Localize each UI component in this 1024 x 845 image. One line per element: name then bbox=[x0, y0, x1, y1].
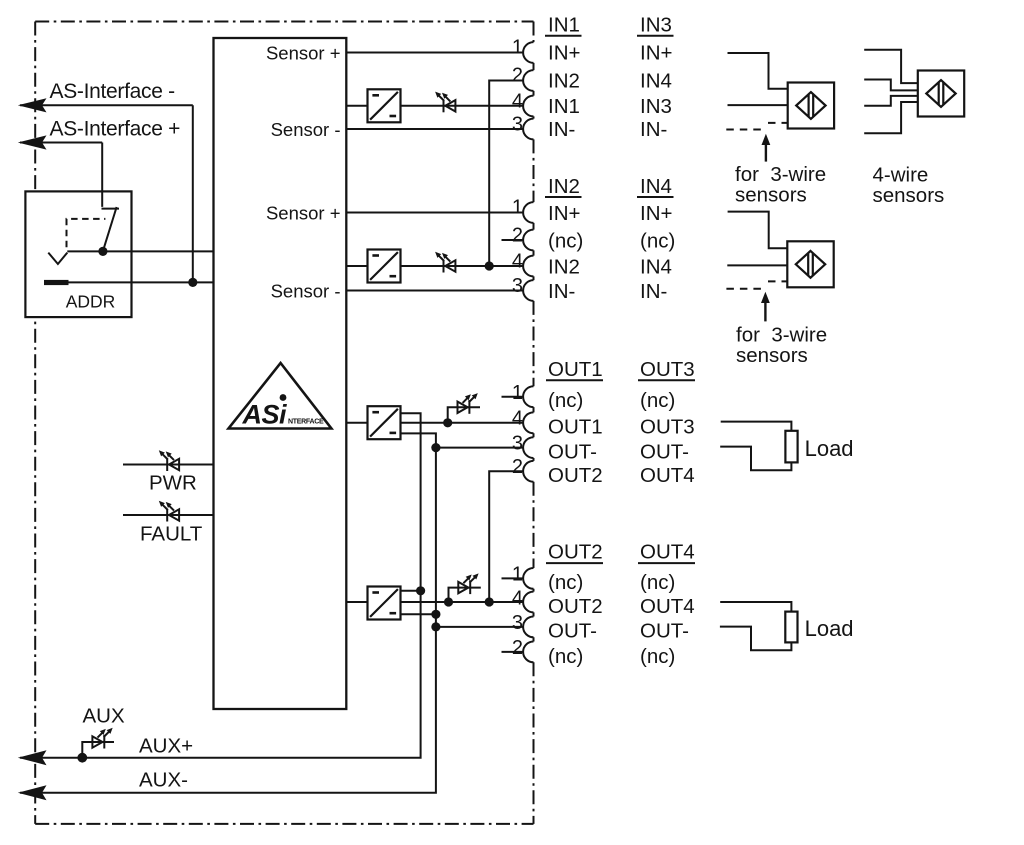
pin labels connector IN1 column bbox=[548, 42, 580, 142]
ADDR reference bar terminal bbox=[44, 280, 69, 285]
pin numbers connector OUT1 bbox=[512, 382, 523, 478]
junction switch output node bbox=[98, 247, 107, 256]
pin labels connector IN2 column bbox=[548, 202, 583, 303]
wire OUT- ch1 to pin3 bbox=[436, 447, 523, 449]
wire Sensor- ch1 to pin3 bbox=[346, 128, 523, 130]
wire 3-wire sensor 2 blue (optional, dashed) bbox=[726, 288, 766, 290]
wire Load 1 top bbox=[721, 422, 792, 431]
LED OUT1 bbox=[458, 393, 478, 414]
LED OUT2 bbox=[458, 573, 478, 594]
wire 3-wire sensor 2 brown (+) bbox=[728, 212, 788, 249]
converter U2 (IN1 isolation) bbox=[368, 89, 401, 122]
svg-text:Load: Load bbox=[805, 616, 854, 641]
wire AS-Interface + bbox=[20, 142, 102, 144]
svg-text:(nc): (nc) bbox=[548, 571, 583, 594]
pin labels IN3 column bbox=[640, 42, 672, 142]
svg-text:AUX: AUX bbox=[83, 705, 125, 728]
svg-text:ADDR: ADDR bbox=[66, 292, 116, 312]
wire nc stub pin1 OUT2 connector bbox=[502, 577, 524, 579]
wire converter U3 input bbox=[346, 265, 367, 267]
junction OUT2 cross-connect node bbox=[485, 597, 494, 606]
dashed mechanical linkage bbox=[67, 219, 106, 247]
LED FAULT bbox=[159, 501, 179, 522]
svg-text:2: 2 bbox=[512, 225, 523, 247]
LED PWR bbox=[159, 450, 179, 471]
svg-text:OUT-: OUT- bbox=[640, 441, 689, 464]
svg-text:2: 2 bbox=[512, 637, 523, 659]
arrow AS-Interface - bbox=[18, 98, 47, 112]
wire OUT2 LED stub bbox=[449, 588, 481, 602]
svg-text:IN-: IN- bbox=[640, 118, 667, 141]
junction OUT- ch2 node bbox=[431, 622, 440, 631]
wire AUX LED stub bbox=[82, 742, 114, 758]
arrow AS-Interface + bbox=[18, 135, 47, 149]
wire Sensor+ ch2 to pin1 bbox=[346, 212, 523, 214]
svg-text:OUT4: OUT4 bbox=[640, 595, 695, 618]
junction IN2 output node bbox=[485, 261, 494, 270]
pin labels OUT4 column bbox=[640, 571, 695, 668]
svg-text:IN4: IN4 bbox=[640, 70, 672, 93]
svg-text:(nc): (nc) bbox=[640, 645, 675, 668]
wire converter U3 output to pin4 bbox=[401, 265, 524, 267]
pin numbers connector IN2 bbox=[512, 197, 523, 298]
wire converter U2 input bbox=[346, 105, 367, 107]
module electronics block U1 bbox=[214, 38, 347, 709]
svg-text:FAULT: FAULT bbox=[140, 523, 203, 546]
wire nc stub pin1 OUT1 connector bbox=[502, 396, 524, 398]
junction AUX+ rail node bbox=[416, 586, 425, 595]
svg-text:OUT1: OUT1 bbox=[548, 358, 603, 381]
svg-text:AUX-: AUX- bbox=[139, 769, 188, 792]
pin labels OUT3 column bbox=[640, 389, 695, 487]
wire converter U5 bottom output to AUX- rail bbox=[401, 613, 436, 615]
svg-text:1: 1 bbox=[512, 564, 523, 586]
svg-text:4: 4 bbox=[512, 91, 523, 113]
wire OUT- ch2 to pin3 bbox=[436, 626, 523, 628]
svg-text:OUT1: OUT1 bbox=[548, 416, 603, 439]
svg-text:3: 3 bbox=[512, 612, 523, 634]
wire AS-Interface + drop into switch bbox=[101, 143, 103, 207]
connector IN1 socket contacts (pins 1,2,4,3) bbox=[523, 42, 533, 139]
sensor B2 (3-wire) bbox=[787, 241, 833, 287]
wire 4-wire sensor pin4 bbox=[864, 102, 918, 133]
svg-text:AS-Interface +: AS-Interface + bbox=[50, 118, 181, 141]
wire converter U5 output to pin4 OUT2 bbox=[401, 601, 524, 603]
svg-text:sensors: sensors bbox=[735, 184, 807, 207]
wire Sensor+ ch1 to pin1 bbox=[346, 52, 523, 54]
connector OUT1 socket contacts (pins 1,4,3,2) bbox=[523, 386, 533, 481]
svg-text:IN4: IN4 bbox=[640, 175, 672, 198]
svg-text:IN2: IN2 bbox=[548, 256, 580, 279]
arrow pointer to dashed wire bbox=[765, 142, 767, 162]
arrow AUX+ bbox=[18, 750, 47, 765]
svg-text:IN2: IN2 bbox=[548, 175, 580, 198]
svg-text:4: 4 bbox=[512, 408, 523, 430]
svg-text:OUT-: OUT- bbox=[640, 620, 689, 643]
converter U4 (OUT1 isolation) bbox=[368, 406, 401, 439]
LED AUX bbox=[92, 728, 112, 749]
wire OUT1 LED stub bbox=[448, 407, 480, 423]
wire AS-Interface - horizontal bbox=[20, 104, 193, 106]
svg-text:IN+: IN+ bbox=[640, 202, 672, 225]
svg-text:PWR: PWR bbox=[149, 472, 197, 495]
svg-text:OUT-: OUT- bbox=[548, 620, 597, 643]
svg-text:IN2: IN2 bbox=[548, 70, 580, 93]
svg-text:3: 3 bbox=[512, 433, 523, 455]
svg-text:IN-: IN- bbox=[640, 280, 667, 303]
connector IN2 socket contacts (pins 1,2,4,3) bbox=[523, 202, 533, 301]
svg-text:IN3: IN3 bbox=[640, 95, 672, 118]
junction OUT2 LED node bbox=[444, 597, 453, 606]
actuator arrow V at wire end bbox=[48, 253, 67, 264]
svg-text:IN3: IN3 bbox=[640, 13, 672, 36]
svg-text:IN+: IN+ bbox=[640, 42, 672, 65]
wire 3-wire sensor 1 blue (optional, dashed) bbox=[726, 129, 766, 131]
svg-text:Sensor +: Sensor + bbox=[266, 203, 341, 224]
converter U5 (OUT2 isolation) bbox=[368, 587, 401, 620]
wire nc stub pin2 IN2 connector bbox=[502, 239, 524, 241]
svg-text:(nc): (nc) bbox=[640, 389, 675, 412]
svg-text:sensors: sensors bbox=[873, 184, 945, 207]
wire PWR LED bbox=[123, 464, 214, 466]
pin numbers connector OUT2 bbox=[512, 564, 523, 660]
svg-text:3: 3 bbox=[512, 114, 523, 136]
svg-text:Sensor -: Sensor - bbox=[271, 119, 341, 140]
switch S1 fixed contact bbox=[102, 208, 120, 210]
svg-text:AS-Interface -: AS-Interface - bbox=[50, 80, 176, 103]
wire 4-wire sensor pin1 bbox=[864, 50, 918, 83]
junction OUT1 LED node bbox=[443, 418, 452, 427]
addressing switch box ADDR bbox=[25, 191, 131, 317]
wire AS-Interface - vertical drop to ADDR net bbox=[192, 105, 194, 282]
module boundary (dash-dot frame) bbox=[35, 22, 533, 824]
junction AS-Interface - with bar wire bbox=[188, 278, 197, 287]
wire 4-wire sensor pin3 bbox=[864, 96, 918, 106]
svg-text:OUT2: OUT2 bbox=[548, 595, 603, 618]
svg-text:OUT2: OUT2 bbox=[548, 541, 603, 564]
arrow AUX- bbox=[18, 785, 47, 800]
pin labels connector OUT1 column bbox=[548, 389, 603, 487]
svg-text:OUT4: OUT4 bbox=[640, 464, 695, 487]
svg-text:1: 1 bbox=[512, 37, 523, 59]
sensor B3 (4-wire) bbox=[918, 71, 964, 117]
svg-text:IN-: IN- bbox=[548, 280, 575, 303]
wire pin2 IN2 cross-connect bbox=[489, 81, 523, 267]
wire AUX- with rail from OUT converters bbox=[20, 433, 436, 792]
svg-text:1: 1 bbox=[512, 197, 523, 219]
wire converter U4 output to pin4 OUT1 bbox=[401, 422, 524, 424]
AS-Interface logo (triangle) bbox=[229, 363, 332, 430]
wire bar terminal to block bbox=[69, 281, 214, 283]
wire Load 2 top bbox=[720, 602, 791, 612]
resistor Load 2 bbox=[785, 612, 797, 643]
junction AUX- rail top node bbox=[431, 610, 440, 619]
svg-text:OUT2: OUT2 bbox=[548, 464, 603, 487]
svg-text:(nc): (nc) bbox=[548, 389, 583, 412]
svg-text:(nc): (nc) bbox=[640, 230, 675, 253]
wire Sensor- ch2 to pin3 bbox=[346, 290, 523, 292]
svg-text:2: 2 bbox=[512, 65, 523, 87]
svg-text:AUX+: AUX+ bbox=[139, 735, 193, 758]
svg-text:IN+: IN+ bbox=[548, 202, 580, 225]
wire converter U5 top output to AUX+ rail bbox=[401, 590, 421, 592]
wire 3-wire sensor 1 brown (+) bbox=[728, 53, 788, 89]
svg-text:3: 3 bbox=[512, 275, 523, 297]
wire converter U2 output to pin4 bbox=[401, 105, 524, 107]
wire 3-wire sensor 2 black (signal) bbox=[727, 264, 787, 266]
svg-text:IN+: IN+ bbox=[548, 42, 580, 65]
svg-text:Sensor -: Sensor - bbox=[271, 281, 341, 302]
pin labels IN4 column bbox=[640, 202, 675, 303]
switch S1 lever bbox=[103, 207, 117, 251]
LED IN1 bbox=[435, 92, 455, 113]
svg-text:ASi: ASi bbox=[242, 400, 288, 430]
svg-text:OUT3: OUT3 bbox=[640, 358, 695, 381]
svg-text:4: 4 bbox=[512, 588, 523, 610]
connector OUT2 socket contacts (pins 1,4,3,2) bbox=[523, 568, 533, 662]
svg-text:(nc): (nc) bbox=[640, 571, 675, 594]
wire Load 1 bottom bbox=[720, 447, 791, 471]
svg-text:OUT3: OUT3 bbox=[640, 416, 695, 439]
svg-text:IN1: IN1 bbox=[548, 13, 580, 36]
svg-text:IN1: IN1 bbox=[548, 95, 580, 118]
pin labels connector OUT2 column bbox=[548, 571, 603, 668]
converter U3 (IN2 isolation) bbox=[368, 250, 401, 283]
wire switch output to block bbox=[67, 250, 213, 252]
resistor Load 1 bbox=[785, 431, 797, 463]
wire nc stub pin2 OUT2 connector bbox=[502, 651, 524, 653]
svg-text:2: 2 bbox=[512, 456, 523, 478]
svg-text:IN4: IN4 bbox=[640, 256, 672, 279]
svg-text:Load: Load bbox=[805, 436, 854, 461]
svg-text:1: 1 bbox=[512, 382, 523, 404]
wire converter U5 input bbox=[346, 601, 367, 603]
svg-text:Sensor +: Sensor + bbox=[266, 43, 341, 64]
svg-text:(nc): (nc) bbox=[548, 645, 583, 668]
svg-text:NTERFACE: NTERFACE bbox=[288, 419, 324, 426]
svg-text:IN-: IN- bbox=[548, 118, 575, 141]
wire Load 2 bottom bbox=[720, 627, 792, 651]
sensor B1 (3-wire) bbox=[788, 83, 834, 129]
wire 4-wire sensor pin2 bbox=[864, 80, 918, 91]
junction OUT- ch1 node bbox=[431, 443, 440, 452]
wire pin2 OUT2 cross-connect bbox=[489, 471, 523, 602]
svg-text:sensors: sensors bbox=[736, 344, 808, 367]
wire FAULT LED bbox=[123, 514, 214, 516]
svg-text:4: 4 bbox=[512, 251, 523, 273]
svg-text:OUT-: OUT- bbox=[548, 441, 597, 464]
junction AUX LED on AUX+ bbox=[77, 753, 87, 763]
svg-text:(nc): (nc) bbox=[548, 230, 583, 253]
svg-text:OUT4: OUT4 bbox=[640, 541, 695, 564]
wire AUX+ with rail from OUT1 converter bbox=[20, 413, 421, 757]
wire 3-wire sensor 1 black (signal) bbox=[728, 104, 788, 106]
arrow pointer to dashed wire 2 bbox=[764, 300, 766, 322]
wire converter U4 input bbox=[346, 422, 367, 424]
pin numbers connector IN1 bbox=[512, 37, 523, 136]
LED IN2 bbox=[435, 252, 455, 273]
